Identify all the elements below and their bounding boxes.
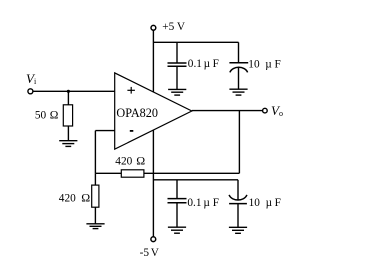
wire +5V stem down to op-amp top edge [152,30,154,92]
ground below R1 [59,141,77,147]
svg-text:OPA820: OPA820 [116,106,158,120]
resistor RF 420 ohm feedback body [121,170,144,177]
wire 420 ohm bottom stem [94,207,96,224]
svg-text:0.1µF: 0.1µF [188,58,219,70]
wire feedback horizontal right segment [144,172,240,174]
wire 50 ohm top stem [67,91,69,105]
wire bottom supply rail [153,179,238,181]
ground below C2 [229,89,247,95]
capacitor C3 0.1uF bottom plates [168,199,187,203]
wire + input from Vi to op-amp [33,90,115,92]
capacitor C2 10uF top (polarized) [229,63,248,73]
svg-text:10µF: 10µF [248,58,280,70]
wire 420 ohm shunt top stem [94,173,96,185]
wire feedback horizontal left segment [95,172,121,174]
node -5V terminal [151,237,156,242]
node +5V terminal [151,25,156,30]
wire C1 bottom stem [176,66,178,89]
svg-text:420Ω: 420Ω [115,154,145,168]
wire C4 top stem [237,180,239,200]
wire C3 top stem [176,180,178,199]
wire C1 top stem [176,42,178,63]
wire - input vertical down to feedback node [94,131,96,174]
wire 50 ohm bottom stem [67,126,69,140]
resistor R2 420 ohm body [92,185,99,207]
wire - input horizontal [95,130,114,132]
resistor R1 50 ohm body [63,105,72,126]
ground below R2 [86,224,104,229]
svg-text:+5 V: +5 V [162,21,186,33]
label - input sign (drawn) [130,130,134,132]
node Vo output terminal [263,108,268,113]
ground below C4 [229,227,247,233]
svg-text:420Ω: 420Ω [59,191,90,205]
capacitor C4 10uF bottom (polarized) [229,195,247,204]
wire top supply rail [153,41,238,43]
svg-text:10µF: 10µF [249,197,281,209]
junction dot at 50 ohm tap [67,90,70,93]
ground below C3 [168,227,186,233]
capacitor C1 0.1uF top plates [168,63,187,66]
op-amp U1 OPA820 triangle [115,73,192,149]
label + input sign (drawn) [127,87,134,94]
wire feedback vertical from output node down [238,111,240,174]
svg-text:0.1µF: 0.1µF [187,197,219,209]
wire top rail corner down to C2 [238,42,240,63]
ground below C1 [168,89,186,95]
wire C3 bottom stem [176,203,178,227]
node Vi input terminal [28,89,33,94]
wire -5V stem from op-amp bottom edge down [152,130,154,237]
wire C4 bottom stem [237,204,239,228]
wire C2 bottom stem [238,67,240,89]
wire output from apex to Vo [192,110,263,112]
